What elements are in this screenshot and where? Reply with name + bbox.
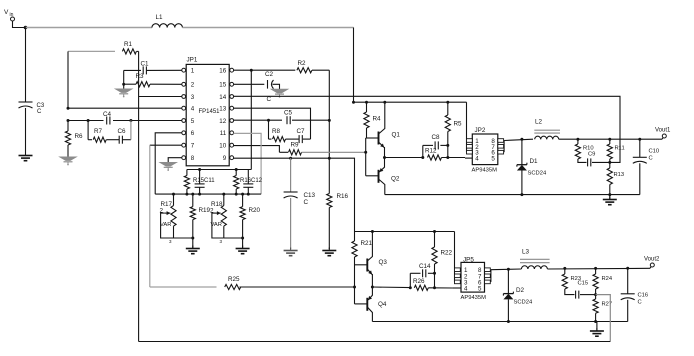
resistor R24: [593, 268, 613, 294]
svg-text:C6: C6: [118, 128, 127, 135]
wire pin11 gray: [233, 133, 261, 194]
wire Vin to rail: [13, 21, 26, 28]
wire R25 gray: [150, 286, 217, 288]
svg-text:12: 12: [219, 118, 226, 125]
inductor L1: [152, 14, 182, 28]
svg-text:R3: R3: [136, 73, 145, 80]
wire Vin down: [25, 28, 27, 103]
junction R2 pin9: [328, 157, 331, 160]
wire pin9 line: [233, 158, 354, 231]
svg-text:L3: L3: [522, 249, 530, 256]
capacitor C6: [118, 128, 127, 144]
wire R4 stub: [366, 102, 368, 112]
resistor R20: [240, 207, 261, 220]
wire C8 left up: [422, 145, 424, 157]
junction bus1: [198, 168, 201, 171]
wire R20 bottom: [242, 220, 244, 238]
svg-text:Q2: Q2: [391, 176, 400, 183]
wire C13 gnd: [290, 198, 292, 249]
junction R24 top: [594, 267, 597, 270]
svg-text:8: 8: [191, 155, 195, 162]
wire pin9 rail: [355, 231, 455, 233]
wire drive line b: [442, 157, 466, 159]
junction R6 pin5: [67, 119, 70, 122]
svg-text:1: 1: [191, 68, 195, 75]
junction D2 gnd: [507, 320, 510, 323]
junction pot bus: [198, 193, 201, 196]
svg-text:JP2: JP2: [475, 127, 486, 134]
svg-text:C8: C8: [432, 134, 441, 141]
junction R23 top: [563, 267, 566, 270]
wire pot1 loop: [161, 213, 174, 238]
ground pin8 triangle: [160, 163, 176, 171]
junction pin16 drop: [250, 69, 253, 72]
capacitor C1: [141, 61, 150, 75]
svg-text:R12: R12: [425, 148, 437, 155]
wire pin13: [233, 108, 310, 120]
capacitor C11: [195, 170, 205, 195]
capacitor C13: [284, 192, 316, 206]
wire pot2 top: [223, 194, 225, 206]
svg-text:R24: R24: [602, 276, 613, 282]
terminal Vin: [11, 17, 15, 21]
junction pot bus: [222, 193, 225, 196]
ground R27: [590, 322, 604, 337]
label R16C12: [240, 178, 263, 184]
wire pot1 to R19: [174, 237, 193, 239]
wire pin16: [233, 69, 295, 71]
junction R2 pin12: [328, 119, 331, 122]
svg-text:R21: R21: [361, 240, 373, 247]
wire R7C6 a: [88, 139, 92, 141]
svg-text:R1: R1: [124, 41, 133, 48]
wire gnd rail 2: [372, 321, 627, 323]
svg-text:JP5: JP5: [463, 257, 474, 264]
svg-text:R22: R22: [441, 250, 453, 257]
wire C14 left up: [409, 273, 411, 288]
svg-text:VAR: VAR: [160, 222, 172, 228]
svg-text:10: 10: [219, 143, 226, 150]
svg-text:C9: C9: [588, 152, 595, 158]
wire JP2 out: [504, 139, 533, 140]
ground C2 triangle: [272, 89, 288, 97]
wire drive2 a: [372, 286, 410, 289]
wire C2 elbow: [273, 84, 280, 89]
wire top rail right: [183, 27, 354, 29]
junction C8 left: [421, 156, 424, 159]
wire pin7 gray drop: [149, 145, 151, 287]
wire C1R3 vert: [123, 70, 125, 85]
wire R4 to base: [366, 128, 368, 138]
resistor R11: [607, 139, 625, 162]
resistor R26: [413, 278, 428, 290]
resistor R23: [562, 268, 581, 289]
wire C14 b: [428, 272, 435, 274]
wire JP2 right bus: [503, 141, 505, 153]
svg-text:C: C: [304, 199, 309, 206]
wire R7C6 b: [106, 139, 119, 141]
resistor R19: [190, 207, 210, 220]
label pot2 pin: [220, 239, 223, 244]
svg-text:AP9435M: AP9435M: [461, 295, 487, 301]
resistor R5: [445, 102, 462, 157]
wire pot2 loop: [212, 213, 224, 238]
wire R1 vertical loop: [138, 51, 140, 341]
junction R12 right: [446, 156, 449, 159]
diode D2 SCD24: [503, 269, 533, 305]
wire C5 box right: [310, 120, 312, 139]
svg-text:D1: D1: [530, 158, 539, 165]
svg-text:13: 13: [219, 106, 226, 113]
wire C8 b: [440, 144, 447, 146]
op-amp U2 JP2 AP9435M: [467, 127, 504, 174]
wire R8 a: [269, 138, 272, 140]
svg-text:AP9435M: AP9435M: [472, 168, 498, 174]
resistor R16: [327, 193, 349, 208]
resistor R12: [425, 148, 442, 161]
wire C1 to pin1: [147, 69, 183, 71]
resistor R22: [432, 232, 453, 288]
svg-text:C2: C2: [265, 71, 274, 78]
capacitor C15: [576, 281, 589, 299]
svg-text:15: 15: [219, 82, 226, 89]
junction C4 left: [87, 119, 90, 122]
svg-text:R26: R26: [413, 278, 425, 285]
svg-text:C15: C15: [578, 281, 589, 287]
resistor R9: [289, 142, 302, 155]
wire pin15: [233, 83, 264, 85]
capacitor C8: [432, 134, 441, 149]
junction pot1 gnd: [191, 237, 194, 240]
svg-text:11: 11: [220, 130, 227, 137]
wire pot2 to R20: [224, 237, 243, 239]
svg-text:R19: R19: [199, 207, 211, 214]
wire R25 right: [240, 286, 355, 288]
wire C1 left: [124, 69, 141, 71]
wire R9 gray: [302, 151, 366, 153]
wire JP5 pin4: [453, 287, 461, 289]
svg-text:R15C11: R15C11: [193, 178, 215, 184]
svg-text:R16: R16: [337, 193, 349, 200]
ground R6 triangle: [60, 157, 76, 165]
wire drive2 b: [428, 287, 453, 289]
junction pot2 gnd: [241, 237, 244, 240]
wire pot1 bottom: [173, 226, 175, 238]
wire JP2 pins bus: [466, 102, 468, 152]
svg-text:C: C: [638, 300, 642, 306]
resistor R2: [297, 60, 312, 73]
wire R7C6 down left: [87, 121, 89, 140]
wire C14 a: [410, 272, 420, 274]
op-amp U1 JP1 FP1451: [182, 57, 234, 166]
junction pot bus: [185, 193, 188, 196]
ground R16: [322, 248, 336, 256]
junction railB: [352, 101, 355, 104]
svg-text:SCD24: SCD24: [514, 300, 533, 306]
junction C14 left: [409, 286, 412, 289]
wire R7C6 c: [122, 139, 130, 141]
junction Vin rail: [24, 26, 28, 30]
svg-text:16: 16: [219, 68, 226, 75]
inductor L2: [534, 119, 560, 140]
wire FB1 line: [233, 96, 620, 162]
svg-text:R9: R9: [291, 142, 300, 149]
wire top rail drop: [353, 28, 355, 103]
wire base vert2: [354, 257, 356, 304]
capacitor C16: [621, 268, 648, 321]
svg-text:R20: R20: [249, 207, 261, 214]
svg-text:C: C: [37, 109, 42, 115]
wire C15 right: [580, 294, 596, 296]
svg-text:C4: C4: [103, 111, 112, 118]
transistor Q3: [355, 232, 388, 288]
svg-text:C16: C16: [638, 293, 649, 299]
wire pot bus: [155, 193, 261, 195]
potentiometer R18: [210, 201, 226, 228]
junction R4 top: [365, 101, 368, 104]
junction R26 right: [433, 286, 436, 289]
terminal Vout1: [655, 128, 671, 140]
resistor R16b: [234, 170, 239, 195]
svg-text:3: 3: [191, 94, 195, 101]
svg-text:D2: D2: [516, 287, 525, 294]
ground C3: [19, 153, 33, 161]
resistor R4: [364, 112, 381, 128]
junction R5 top: [446, 101, 449, 104]
junction R22 top: [433, 230, 436, 233]
ground C13: [284, 248, 298, 256]
svg-text:R8: R8: [272, 128, 281, 135]
junction C13 top: [289, 157, 292, 160]
junction drive: [383, 156, 386, 159]
svg-text:5: 5: [491, 156, 495, 163]
junction base2 drive: [353, 286, 356, 289]
wire R3 to pin2: [150, 83, 182, 85]
resistor R27: [593, 295, 612, 322]
ground C1R3 triangle: [116, 84, 132, 97]
junction bus2: [235, 168, 238, 171]
wire R6 stub: [67, 121, 69, 132]
wire gnd rail 1: [385, 194, 640, 196]
junction Q1 coll: [383, 101, 386, 104]
svg-text:C14: C14: [419, 263, 431, 270]
svg-text:FP1451: FP1451: [199, 109, 221, 115]
junction R11 top: [608, 138, 611, 141]
wire top rail left: [26, 27, 153, 29]
svg-text:R11: R11: [615, 146, 625, 152]
terminal Vout2: [644, 257, 660, 269]
wire C5 box left: [268, 120, 270, 139]
svg-text:R4: R4: [373, 116, 382, 123]
capacitor C9: [588, 152, 596, 167]
resistor R13: [607, 162, 624, 194]
wire out2: [547, 267, 650, 270]
wire pot2 bottom: [223, 226, 225, 238]
wire pin6: [155, 133, 182, 194]
svg-text:R13: R13: [614, 172, 625, 178]
junction C5 left: [267, 119, 270, 122]
svg-text:L2: L2: [535, 119, 543, 126]
svg-text:C13: C13: [304, 192, 316, 199]
svg-text:R6: R6: [75, 133, 84, 140]
svg-text:C1: C1: [141, 61, 150, 68]
junction D2 top: [507, 268, 510, 271]
capacitor C4: [103, 111, 112, 125]
junction FB1: [608, 161, 611, 164]
wire pin5 b: [113, 120, 182, 122]
wire D1 gnd: [521, 171, 523, 195]
svg-text:Q1: Q1: [392, 132, 401, 139]
svg-text:7: 7: [191, 143, 195, 150]
junction C16 top: [626, 267, 629, 270]
wire R19 bottom: [192, 220, 194, 238]
wire R2 right: [312, 69, 329, 71]
svg-text:2: 2: [191, 82, 195, 89]
svg-text:R16C12: R16C12: [240, 178, 263, 184]
resistor R10: [575, 139, 593, 159]
wire pin12: [233, 119, 282, 121]
resistor R3: [136, 73, 151, 87]
wire drive line a: [385, 157, 423, 159]
wire C5 right: [292, 119, 329, 121]
svg-text:R25: R25: [228, 276, 240, 283]
capacitor C7: [297, 128, 306, 143]
label R15C11: [193, 178, 215, 184]
junction R22 C14: [433, 272, 436, 275]
svg-text:V: V: [4, 9, 9, 16]
capacitor C14: [419, 263, 431, 277]
svg-text:Q3: Q3: [379, 259, 388, 266]
svg-text:C: C: [267, 96, 272, 103]
svg-text:C7: C7: [297, 128, 306, 135]
wire C3 to gnd: [25, 108, 27, 153]
junction drive2: [371, 286, 374, 289]
resistor R7: [93, 128, 106, 142]
svg-text:C5: C5: [284, 110, 293, 117]
svg-text:Q4: Q4: [378, 301, 387, 308]
wire R6 gnd: [67, 145, 69, 157]
wire pin10: [233, 146, 279, 153]
svg-text:SCD24: SCD24: [528, 171, 547, 177]
wire D2 gnd: [507, 299, 509, 321]
capacitor C12: [243, 170, 253, 195]
wire C7 right: [303, 138, 311, 140]
wire JP5 pins bus: [454, 232, 456, 282]
wire vert A: [250, 70, 252, 169]
wire R23 C15: [565, 289, 575, 295]
junction pot bus: [172, 193, 175, 196]
junction R5 C8: [446, 144, 449, 147]
capacitor C3: [19, 102, 45, 115]
svg-text:C10: C10: [649, 149, 660, 155]
svg-text:C: C: [649, 156, 653, 162]
resistor R15: [184, 170, 189, 195]
wire R9 left: [279, 151, 288, 153]
junction C4 right: [129, 119, 132, 122]
wire pin4: [68, 107, 182, 109]
junction C10 top: [638, 138, 641, 141]
inductor L3: [520, 249, 550, 270]
junction D1 top: [520, 138, 523, 141]
junction R27 gnd: [594, 320, 597, 323]
wire comp bus: [187, 169, 251, 171]
resistor R8: [272, 128, 286, 142]
wire R3 left: [124, 83, 136, 85]
wire R2 drop: [328, 70, 330, 193]
wire pot1 top: [173, 194, 175, 206]
junction R10 top: [576, 138, 579, 141]
svg-text:R7: R7: [94, 128, 103, 135]
svg-text:Vout1: Vout1: [655, 128, 671, 134]
resistor R25: [225, 276, 241, 290]
junction R13 gnd: [608, 193, 611, 196]
svg-text:4: 4: [191, 106, 195, 113]
wire pin3: [139, 96, 182, 98]
wire bottom loop: [139, 341, 611, 343]
capacitor C5: [284, 110, 293, 125]
label pot1 pin: [169, 239, 172, 244]
junction Q3 coll: [371, 230, 374, 233]
wire R1 right: [137, 50, 139, 52]
wire pin8: [168, 158, 182, 162]
ground R17 group: [186, 238, 200, 254]
ground R13: [603, 195, 617, 205]
junction pot bus: [191, 193, 194, 196]
wire base vert1: [365, 138, 367, 176]
svg-text:4: 4: [475, 156, 479, 163]
wire C8 a: [423, 144, 433, 146]
junction R6 pin4: [67, 107, 70, 110]
wire pin5 a: [68, 120, 104, 122]
wire C9 right: [592, 161, 610, 163]
svg-text:5: 5: [191, 118, 195, 125]
wire FB2 link: [596, 295, 611, 342]
potentiometer R17: [160, 201, 177, 228]
wire R10 C9: [578, 159, 587, 162]
junction pot bus: [247, 193, 250, 196]
svg-text:6: 6: [191, 130, 195, 137]
junction base gray: [364, 151, 367, 154]
transistor Q2 PNP: [366, 158, 400, 195]
diode D1 SCD24: [517, 139, 547, 176]
transistor Q4 PNP: [355, 287, 387, 322]
svg-text:4: 4: [464, 286, 468, 293]
svg-text:L1: L1: [156, 14, 164, 21]
svg-text:Vout2: Vout2: [644, 257, 660, 263]
svg-text:R5: R5: [454, 121, 463, 128]
junction C1R3: [122, 83, 125, 86]
wire pin7: [150, 144, 182, 146]
wire R1 left: [68, 50, 115, 52]
wire JP2 pin4: [465, 157, 472, 159]
op-amp U3 JP5 AP9435M: [455, 257, 491, 302]
wire C13 stem: [290, 158, 292, 192]
ground R18 group: [236, 238, 250, 254]
svg-text:5: 5: [478, 286, 482, 293]
junction pot bus: [241, 193, 244, 196]
transistor Q1: [366, 102, 401, 157]
resistor R21: [352, 232, 373, 258]
wire out1: [559, 138, 662, 140]
wire R7C6 up right: [130, 121, 132, 140]
wire R8C7: [286, 138, 299, 140]
junction FB2: [594, 293, 597, 296]
wire rail B: [354, 101, 467, 103]
svg-text:14: 14: [219, 94, 226, 101]
junction D1 gnd: [520, 193, 523, 196]
wire R16 gnd: [328, 208, 330, 250]
svg-text:9: 9: [223, 155, 227, 162]
